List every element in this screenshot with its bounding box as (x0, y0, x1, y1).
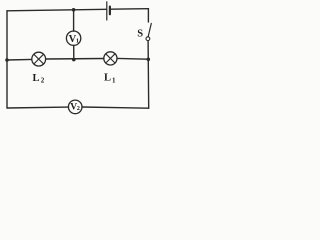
svg-text:2: 2 (77, 106, 80, 112)
svg-text:1: 1 (112, 76, 116, 84)
wire: top left segment (battery to top-left corner) (7, 9, 106, 11)
svg-text:L: L (33, 73, 40, 84)
wire: bottom right segment (V2 to bottom-right corner) (82, 107, 149, 108)
wire: bottom left segment (corner to voltmeter V2) (7, 106, 69, 109)
wire: top right segment (battery to top-right corner) (111, 8, 149, 11)
wire: right vertical, corner down to switch top contact (147, 9, 149, 22)
switch S: pivot terminal circle (146, 37, 150, 41)
node: middle wire at left side (5, 58, 9, 62)
lamp L2 circle (32, 52, 46, 66)
battery cell: short thick negative plate (109, 7, 111, 15)
wire: right vertical, switch down to bottom corner (147, 41, 150, 109)
lamp L1 filament X (106, 54, 115, 63)
lamp L2 filament X (34, 54, 44, 64)
svg-text:2: 2 (41, 77, 45, 85)
lamp L1 circle (104, 52, 117, 65)
wire: middle center segment (L2 to L1 through V1 junction) (46, 58, 104, 61)
node: top junction of V1 branch (72, 8, 76, 12)
battery cell: long positive plate (106, 2, 108, 20)
voltmeter V2 circle (68, 100, 82, 114)
wire: middle right segment (L1 to right side) (117, 57, 148, 60)
wire: middle left segment (left side to lamp L2) (7, 58, 32, 61)
wire: left vertical side (6, 11, 8, 108)
wire: V1 branch lower (voltmeter to middle wire) (73, 45, 75, 59)
switch S: open blade (148, 23, 151, 36)
wire: V1 branch upper (top junction to voltmeter) (73, 10, 75, 31)
voltmeter V1 circle (66, 31, 80, 45)
svg-text:L: L (104, 73, 111, 84)
node: middle wire at V1 branch (72, 58, 76, 62)
svg-text:1: 1 (76, 37, 79, 44)
node: middle wire at right side (147, 58, 151, 62)
svg-text:S: S (137, 29, 143, 40)
